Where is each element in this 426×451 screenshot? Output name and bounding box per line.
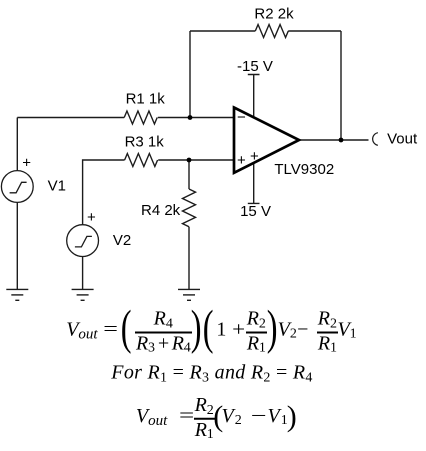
label R2 2k bbox=[254, 5, 294, 22]
power V+ stem and bar bbox=[248, 163, 260, 204]
resistor R2 bbox=[255, 25, 288, 38]
ground for V2 bbox=[72, 289, 94, 300]
junction node noninverting input bbox=[187, 158, 192, 163]
wire inverting input left segment from V1 bbox=[17, 117, 124, 119]
wire V2 top vertical bbox=[83, 160, 125, 225]
label V1 bbox=[48, 178, 66, 195]
wire V1 bottom vertical bbox=[16, 202, 18, 289]
source V2 plus sign bbox=[87, 209, 96, 226]
label R3 1k bbox=[125, 134, 165, 151]
wire noninverting input to op-amp bbox=[158, 159, 234, 161]
label R1 1k bbox=[126, 90, 166, 107]
label -15 V bbox=[237, 58, 273, 75]
source V1 bbox=[1, 171, 33, 203]
formula line 3: Vout = R2/R1 (V2 - V1) bbox=[136, 396, 297, 441]
wire feedback left vertical (node A to top) bbox=[189, 31, 191, 118]
op-amp inverting input label bbox=[237, 109, 246, 126]
svg-text:+: + bbox=[237, 152, 246, 169]
resistor R3 bbox=[125, 154, 158, 167]
svg-text:−: − bbox=[237, 109, 246, 126]
wire feedback right vertical to output bbox=[340, 31, 342, 140]
wire V1 top vertical bbox=[16, 118, 18, 171]
wire output bbox=[299, 139, 369, 141]
wire V2 bottom vertical bbox=[82, 257, 84, 290]
svg-text:15 V: 15 V bbox=[240, 203, 271, 220]
output terminal arc bbox=[373, 133, 378, 146]
wire R4 bottom to ground bbox=[188, 227, 190, 290]
formula line 2: For R1 = R3 and R2 = R4 bbox=[111, 362, 312, 385]
svg-text:R1 1k: R1 1k bbox=[126, 90, 166, 107]
junction node output bbox=[339, 138, 344, 143]
svg-text:R2 2k: R2 2k bbox=[254, 5, 294, 22]
wire R4 top bbox=[188, 160, 190, 189]
svg-text:-15 V: -15 V bbox=[237, 58, 273, 75]
svg-text:V2: V2 bbox=[113, 232, 131, 249]
resistor R4 bbox=[183, 189, 196, 227]
svg-text:+: + bbox=[87, 209, 96, 226]
label Vout bbox=[387, 131, 418, 148]
power V- bar and stem bbox=[248, 75, 260, 118]
source V1 plus sign bbox=[22, 154, 31, 171]
label 15 V bbox=[240, 203, 271, 220]
svg-text:R3 1k: R3 1k bbox=[125, 134, 165, 151]
wire feedback top-right segment bbox=[288, 30, 341, 32]
ground for R4 bbox=[178, 289, 200, 300]
junction node inverting input bbox=[188, 115, 193, 120]
op-amp noninverting input label bbox=[237, 152, 246, 169]
svg-text:V1: V1 bbox=[48, 178, 66, 195]
resistor R1 bbox=[124, 111, 157, 124]
svg-text:R4 2k: R4 2k bbox=[141, 202, 181, 219]
svg-text:+: + bbox=[22, 154, 31, 171]
svg-text:Vout: Vout bbox=[387, 131, 418, 148]
source V2 bbox=[67, 225, 99, 257]
wire inverting input to op-amp bbox=[158, 117, 234, 119]
op-amp V+ pin label bbox=[250, 148, 259, 165]
label V2 bbox=[113, 232, 131, 249]
wire feedback top-left segment bbox=[190, 30, 255, 32]
svg-text:TLV9302: TLV9302 bbox=[274, 161, 334, 178]
label TLV9302 bbox=[274, 161, 334, 178]
formula line 1: Vout = (R4/(R3+R4))(1+R2/R1)V2 - R2/R1 V1 bbox=[66, 303, 356, 360]
label R4 2k bbox=[141, 202, 181, 219]
op-amp U1 TLV9302 bbox=[234, 108, 299, 173]
ground for V1 bbox=[6, 289, 28, 300]
svg-text:+: + bbox=[250, 148, 259, 165]
